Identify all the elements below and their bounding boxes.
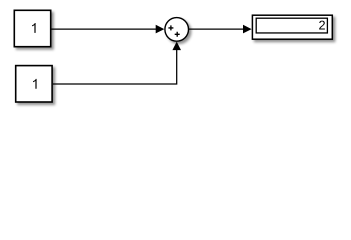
svg-text:2: 2	[319, 19, 326, 33]
